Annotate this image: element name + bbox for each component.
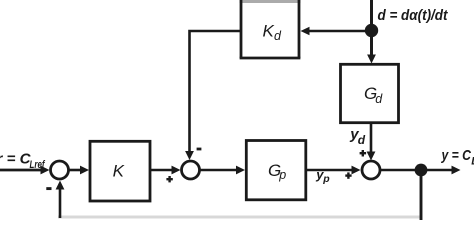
svg-text:r = C: r = C [0,151,32,168]
svg-text:p: p [322,173,330,185]
svg-text:Lref: Lref [30,159,46,171]
svg-text:K: K [263,22,275,41]
svg-text:y = C: y = C [441,147,472,164]
svg-text:K: K [113,162,125,181]
svg-text:d: d [274,29,282,43]
svg-text:p: p [278,168,286,182]
svg-text:d = dα(t)/dt: d = dα(t)/dt [378,7,449,24]
svg-text:d: d [358,133,366,147]
svg-text:d: d [375,92,383,106]
